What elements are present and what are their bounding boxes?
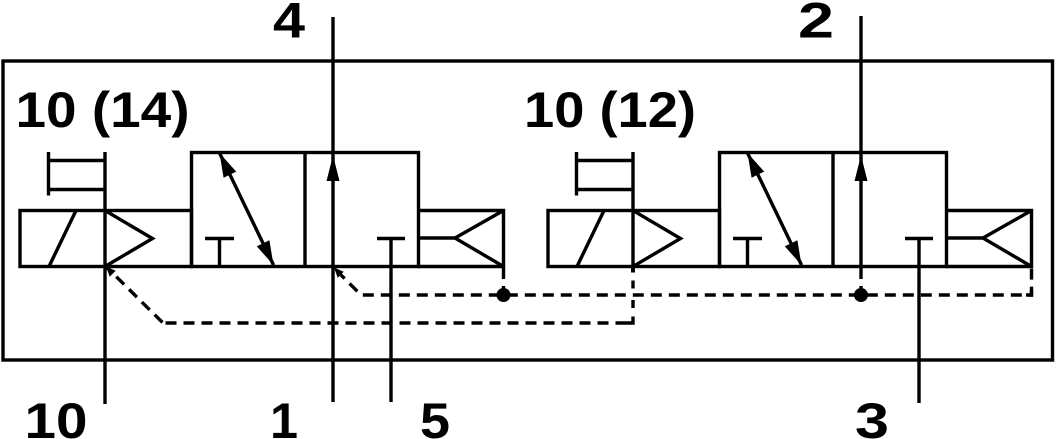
pilot actuator triangle V1 [105,211,153,267]
valve V2 crossed flow path [748,153,802,265]
wire port 3 [917,239,920,404]
pilot supply symbol S2 left bar [575,152,578,196]
pilot line 14 riser corner [627,317,634,324]
pilot branch from V2 passage (dashed) [859,268,862,293]
solenoid S2 armature divider [631,152,634,267]
pilot line 14 horizontal (dashed) [163,321,633,324]
flow arrowhead 1-to-2 V2 [855,156,868,182]
pilot line 12 arrowhead at V1 [334,268,344,278]
wire port 4 [331,17,334,153]
pilot line 14 arrowhead at V2 [631,267,635,273]
solenoid coil S2 box [548,211,720,267]
pilot supply symbol S1 bottom rail [49,188,106,191]
pilot line 12 corner at V2 spring [1026,290,1032,295]
valve V1 divider [303,153,306,267]
solenoid coil S1 diagonal [49,211,76,267]
pilot line 12 (dashed) [334,267,1032,295]
valve V2 crossed flow arrowhead top [748,153,765,178]
junction dot A [497,288,511,302]
svg-text:10 (12): 10 (12) [524,82,696,138]
wire port 10 [103,267,106,405]
valve V2 divider [831,153,834,267]
spring triangle V1 [455,211,504,267]
wire port 5 [389,239,392,403]
junction dot B [854,288,868,302]
svg-text:3: 3 [855,393,889,439]
solenoid coil S2 diagonal [577,211,604,267]
flow arrowhead 1-to-4 V1 [327,156,340,182]
valve V2 right blocked port T crossbar [905,237,933,240]
valve V1 right blocked port T crossbar [377,237,405,240]
pilot line 14 riser dashes [631,300,634,308]
solenoid coil S1 box [20,211,192,267]
valve V1 crossed flow arrowhead bottom [257,240,274,265]
spring box V2 [945,211,1032,267]
valve V1 body [192,153,419,267]
spring stem V2 [947,236,984,239]
pilot actuator triangle V2 [633,211,681,267]
valve V1 crossed flow path [220,153,274,265]
enclosure outline (valve manifold) [3,61,1053,360]
pilot supply symbol S1 left bar [47,152,50,196]
wire port 1 riser through valve V1 [331,153,334,403]
pilot line 14 diagonal (dashed) [106,267,163,324]
svg-text:1: 1 [270,393,298,439]
valve V1 crossed flow arrowhead top [220,153,237,178]
svg-text:10: 10 [25,393,88,439]
wire port 2 [859,16,862,153]
spring triangle V2 [983,211,1032,267]
flow riser through valve V2 [859,153,862,267]
pilot supply symbol S1 top rail [49,159,106,162]
valve V1 left blocked port T [205,237,234,240]
valve V2 left blocked port T [733,237,762,240]
valve V2 crossed flow arrowhead bottom [785,240,802,265]
valve V2 body [720,153,947,267]
pilot supply symbol S2 top rail [577,159,634,162]
spring stem V1 [419,236,456,239]
svg-text:4: 4 [273,0,305,49]
svg-text:5: 5 [420,393,450,439]
spring box V1 [417,211,504,267]
solenoid S1 armature divider [103,152,106,267]
svg-text:2: 2 [798,0,834,49]
pilot branch to V1 spring (dashed) [502,268,505,295]
pilot supply symbol S2 bottom rail [577,188,634,191]
svg-text:10 (14): 10 (14) [16,82,190,138]
pilot line 14 arrowhead at V1 [106,267,116,277]
